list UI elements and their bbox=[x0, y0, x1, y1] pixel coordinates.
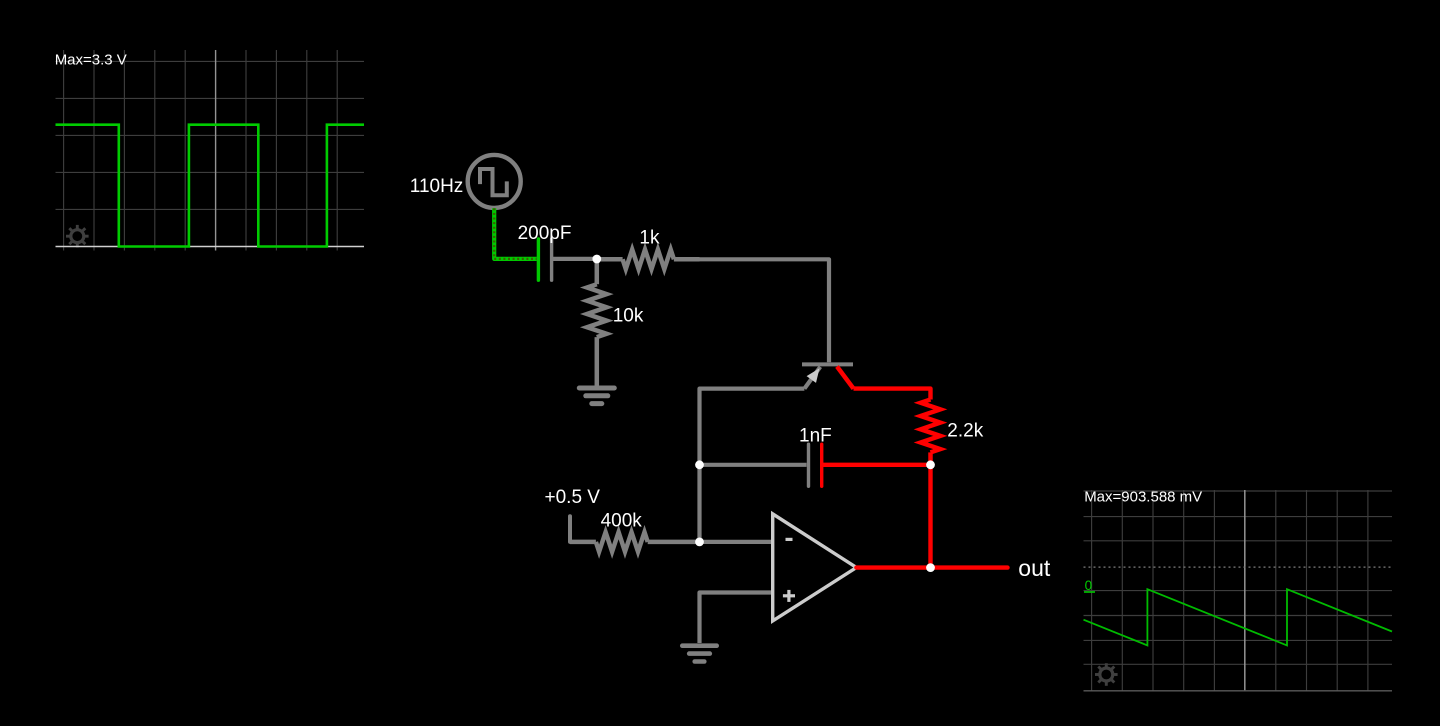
wire transistor collector to 2.2k (red) bbox=[854, 389, 931, 400]
wire node A to 1nF bbox=[700, 463, 807, 467]
scope 2 bottom edge line bbox=[1084, 690, 1393, 692]
scope 1 trace (3.3V square wave) bbox=[56, 125, 365, 247]
resistor R2 10k bbox=[587, 259, 607, 385]
junction node at output bbox=[926, 563, 935, 572]
svg-text:Max=3.3 V: Max=3.3 V bbox=[55, 52, 127, 69]
svg-text:+0.5 V: +0.5 V bbox=[545, 487, 601, 508]
resistor R4 400k bbox=[570, 532, 700, 552]
scope 2 max-level dashed line bbox=[1084, 566, 1393, 568]
scope 1 zero line bbox=[56, 246, 365, 248]
scope 1 cursor gridline bbox=[215, 50, 217, 251]
op-amp U1 bbox=[773, 514, 857, 621]
resistor R3 2.2k (red) bbox=[921, 400, 941, 465]
scope 2 cursor gridline bbox=[1244, 490, 1246, 692]
wire inverting input node to op-amp bbox=[700, 540, 773, 544]
wire op-amp output to out (red) bbox=[856, 565, 1007, 569]
resistor R1 1k bbox=[597, 250, 700, 270]
svg-text:200pF: 200pF bbox=[518, 223, 572, 244]
svg-text:400k: 400k bbox=[601, 511, 643, 532]
wire op-amp non-inverting input to ground bbox=[700, 593, 773, 644]
svg-text:2.2k: 2.2k bbox=[947, 420, 983, 441]
scope 2 gear icon bbox=[1095, 663, 1118, 686]
svg-text:Max=903.588 mV: Max=903.588 mV bbox=[1084, 488, 1202, 505]
scope 1 gear icon bbox=[66, 225, 89, 248]
svg-text:1nF: 1nF bbox=[799, 426, 832, 447]
wire transistor emitter to node A bbox=[700, 389, 805, 465]
svg-text:110Hz: 110Hz bbox=[410, 176, 464, 197]
svg-text:0: 0 bbox=[1085, 578, 1093, 593]
scope 1 grid (input scope, top-left) bbox=[56, 50, 365, 251]
capacitor C2 1nF bbox=[809, 444, 931, 486]
junction node at 400k/inverting input bbox=[695, 538, 704, 547]
junction node B (2.2k/1nF) bbox=[926, 460, 935, 469]
scope 2 grid (output scope, bottom-right) bbox=[1084, 490, 1393, 692]
wire node A down to op-amp inverting input bbox=[697, 465, 701, 542]
wire 1k to transistor base bbox=[700, 259, 830, 362]
svg-text:out: out bbox=[1018, 555, 1051, 581]
scope 2 trace (sawtooth output) bbox=[1084, 589, 1393, 645]
ground (op-amp non-inverting input) bbox=[682, 646, 716, 662]
svg-text:10k: 10k bbox=[613, 306, 644, 327]
wire source to capacitor (green) bbox=[494, 208, 537, 259]
rail +0.5 V bbox=[568, 516, 572, 542]
junction node at 200pF/1k/10k bbox=[592, 255, 601, 264]
transistor Q1 (PNP) bbox=[802, 364, 854, 388]
voltage source V1 110Hz square bbox=[468, 155, 521, 208]
ground (below 10k) bbox=[579, 388, 614, 404]
junction node A (emitter/1nF/op-amp) bbox=[695, 460, 704, 469]
capacitor C1 200pF bbox=[538, 239, 596, 280]
svg-text:1k: 1k bbox=[639, 227, 660, 248]
wire node B down to output node (red) bbox=[928, 465, 932, 568]
